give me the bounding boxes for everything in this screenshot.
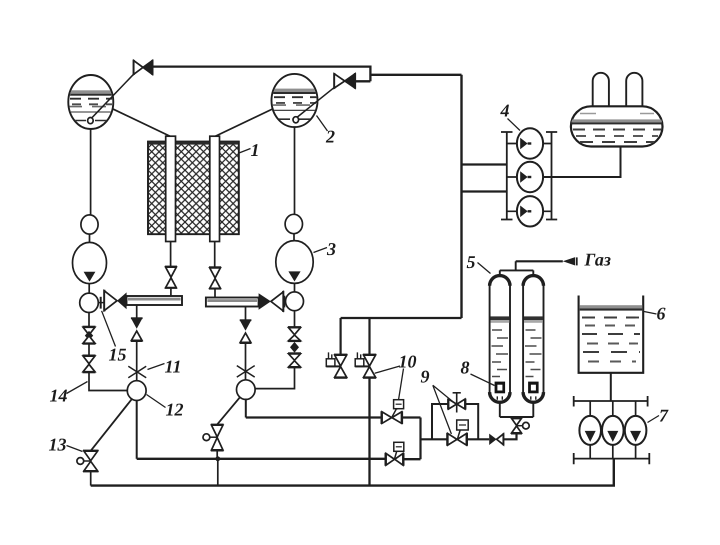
- compressor stubs: [507, 144, 552, 212]
- svg-text:Газ: Газ: [584, 250, 611, 270]
- label 3 leader: [314, 248, 328, 253]
- label 9 leaders: [433, 385, 453, 434]
- compressor suction manifold: [501, 132, 513, 220]
- handle valve near bus: [203, 425, 224, 451]
- pipe valve to bar: [170, 288, 172, 296]
- valve at tank 2 outlet (black/white bowtie): [334, 73, 355, 89]
- label 7 leader: [648, 416, 660, 423]
- electrolyser block 1 (crosshatched): [148, 142, 239, 235]
- wire: tank1 to electrode 1: [112, 109, 170, 137]
- label 2 leader: [317, 116, 328, 132]
- gas outlet line: [516, 260, 563, 262]
- pipe mixer circle down to y417 bus: [245, 399, 247, 417]
- pipe tank 6 outlet: [610, 373, 612, 401]
- pipe to mixer circle 12: [89, 372, 127, 390]
- pipe valve to bar right: [214, 289, 216, 298]
- valve below electrode 1: [165, 267, 177, 289]
- svg-text:9: 9: [421, 367, 430, 387]
- solenoid valve on mid bus: [385, 442, 403, 466]
- label 1 leader: [239, 149, 251, 154]
- pipe from electrode 1 down: [170, 242, 172, 267]
- gas arrow: [563, 257, 575, 265]
- pipe junction down to bottom bus: [217, 459, 219, 486]
- feed line y318 to valves 10: [341, 317, 462, 319]
- bus y417: [246, 416, 421, 418]
- valve below electrode 2: [209, 267, 221, 289]
- electrode tube 2: [210, 136, 220, 241]
- manifold bar left: [127, 296, 183, 305]
- purifier cylinder 5 (left): [490, 276, 510, 403]
- compressor circle 2: [517, 162, 543, 192]
- bus y439: [421, 434, 517, 440]
- svg-text:6: 6: [657, 304, 666, 324]
- compressor discharge to gas-holder: [543, 147, 621, 178]
- orifice X symbol 11: [128, 366, 146, 378]
- valve at tank 1 outlet (black/white bowtie): [134, 60, 153, 75]
- svg-text:15: 15: [109, 345, 127, 365]
- compressor discharge manifold: [546, 132, 557, 220]
- valve pair left chain (bowtie with black drop): [83, 327, 96, 373]
- mid bus y459: [137, 458, 421, 461]
- pump suction header: [574, 396, 648, 407]
- valve pair right chain: [288, 327, 301, 368]
- gas trap small circle left column: [81, 215, 98, 234]
- pipe: tank2 bottom down: [294, 127, 296, 214]
- label 6 leader: [644, 312, 657, 315]
- arrow coupling on y439 bus: [489, 433, 503, 445]
- compressor feed branches: [462, 165, 507, 192]
- pipe: [293, 234, 295, 242]
- svg-text:13: 13: [49, 435, 67, 455]
- drop to valve 10b: [368, 318, 370, 354]
- valve arrow bowtie right bar: [259, 291, 284, 312]
- junction dot mid bus: [215, 456, 220, 461]
- pipe diagonal to handle valve: [217, 397, 240, 425]
- label 5 leader: [478, 263, 491, 274]
- bypass loop 9: [432, 404, 478, 439]
- wire: tank2 to electrode 2: [215, 109, 274, 137]
- wire: long right downcomer x461: [460, 75, 462, 318]
- pipe: [89, 234, 91, 243]
- gas-holder horizontal tank: [571, 106, 663, 146]
- svg-text:5: 5: [467, 252, 476, 272]
- gas trap small circle right column: [285, 214, 302, 233]
- pipe right bar down: [245, 307, 247, 321]
- pipe circle 12 diagonal to valve 13: [91, 399, 132, 451]
- pipes cylinder tops: [500, 261, 534, 276]
- label 4 leader: [508, 119, 521, 131]
- dip line tank1 float to valve: [92, 74, 135, 118]
- svg-text:11: 11: [165, 357, 182, 377]
- purifier cylinder (right of 5): [523, 276, 543, 403]
- manifold bar right: [206, 298, 259, 307]
- pipe to circle below: [245, 343, 247, 380]
- storage tank 6: [579, 296, 644, 373]
- compressor circle 1: [517, 128, 543, 158]
- svg-text:3: 3: [326, 239, 336, 259]
- pipe to circle 12: [136, 341, 138, 381]
- flange stub at valve 15: [98, 302, 104, 304]
- pipe: [294, 283, 296, 292]
- svg-text:2: 2: [325, 127, 335, 147]
- orifice X right: [237, 366, 255, 378]
- dip line tank2 float to valve: [297, 87, 335, 117]
- mixer circle 12: [127, 381, 146, 401]
- pipe: [88, 284, 90, 293]
- svg-text:4: 4: [500, 101, 510, 121]
- pipe valve 13 down to bottom bus: [90, 472, 92, 486]
- drain triangle in left oval: [84, 272, 96, 282]
- pipe circle 12 down to mid bus: [136, 400, 138, 458]
- small circle above manifold left: [80, 293, 99, 312]
- mixer circle right: [237, 380, 256, 400]
- label 8 leader: [471, 374, 495, 386]
- drop to valve 10a: [340, 318, 342, 354]
- long drop x369 from valve 10b to bottom bus: [368, 378, 370, 485]
- valve 13 with handle: [77, 451, 99, 472]
- svg-text:8: 8: [461, 358, 470, 378]
- solenoid valve on y417 bus: [381, 400, 403, 424]
- pipe right chain to mixer circle: [255, 368, 294, 389]
- svg-text:14: 14: [50, 386, 68, 406]
- separator pot 3 (oval): [276, 241, 313, 284]
- gas-holder neck pipes: [593, 73, 609, 107]
- pump 7c: [625, 416, 647, 445]
- float in tank 1: [88, 118, 94, 124]
- pump 7a: [579, 416, 601, 445]
- pipe from electrode 2 down: [214, 242, 216, 268]
- pump stubs lower: [590, 445, 635, 459]
- pipes cylinder bottoms: [500, 402, 534, 418]
- pipe handle valve to mid bus: [216, 451, 218, 459]
- tank (level pot) upper-left: [66, 75, 116, 129]
- solenoid valve 10a: [326, 352, 347, 378]
- check valve left (black cone over white cone): [131, 318, 143, 341]
- valve 15 (arrow bowtie into manifold bar): [104, 290, 126, 312]
- label 13 leader: [67, 446, 83, 452]
- float in tank 2: [293, 117, 299, 123]
- tank (level pot) 2: [270, 74, 320, 127]
- stem valve on loop top: [448, 393, 466, 413]
- label 15 leader: [102, 311, 116, 347]
- pipe left chain from small circle down: [88, 313, 90, 327]
- svg-text:12: 12: [166, 400, 184, 420]
- separator pot left (oval): [73, 242, 107, 283]
- solenoid valve 10b: [355, 352, 376, 378]
- pump stubs upper: [590, 401, 635, 416]
- pump 7b: [602, 416, 624, 445]
- label 10 leaders: [375, 366, 404, 410]
- pipe: tank1 bottom down: [90, 129, 92, 215]
- pump discharge header: [574, 453, 650, 464]
- check valve right: [240, 320, 252, 343]
- svg-text:1: 1: [251, 140, 260, 160]
- bottom bus y485: [91, 459, 614, 486]
- riser x420 between buses: [419, 418, 421, 460]
- label 14 leader: [67, 382, 88, 394]
- handle valve under cylinders: [511, 418, 529, 434]
- svg-text:7: 7: [659, 406, 669, 426]
- label 11 leader: [148, 364, 165, 370]
- compressor circle 3: [517, 196, 543, 226]
- flange stub right: [280, 300, 285, 302]
- label 12 leader: [147, 395, 166, 408]
- electrode tube 1: [166, 136, 176, 241]
- pipe manifold bar left down: [136, 305, 138, 318]
- drain triangle in oval 3: [288, 271, 300, 281]
- wire: top bus from valve near tank 1 to right downcomer: [152, 67, 461, 82]
- solenoid valve on y439 bus: [447, 420, 468, 446]
- small circle above manifold right: [286, 292, 304, 311]
- pipe right chain from small circle down: [294, 311, 296, 327]
- svg-text:10: 10: [399, 352, 417, 372]
